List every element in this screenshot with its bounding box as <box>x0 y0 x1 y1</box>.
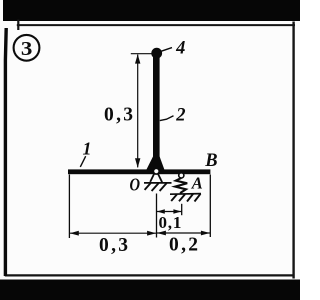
pin support hatch 3 <box>160 183 167 191</box>
svg-text:0,3: 0,3 <box>99 235 130 256</box>
vertical dim arrow up <box>135 54 140 63</box>
top scan edge band <box>3 0 300 21</box>
svg-text:O: O <box>130 175 141 195</box>
extension line below A <box>181 204 183 215</box>
leader to label 1 <box>80 156 85 167</box>
frame left line (page edge) <box>4 28 8 276</box>
pin support at O: pin circle <box>153 168 159 174</box>
dim 0,3 right arrow <box>147 231 156 236</box>
dimension 0,1 line <box>157 211 182 213</box>
frame top line <box>17 24 295 26</box>
extension line below B <box>209 175 211 238</box>
dim 0,3 left arrow <box>70 231 79 236</box>
frame top-left corner stub <box>17 20 19 31</box>
pin support hatch 1 <box>145 183 151 190</box>
svg-text:4: 4 <box>175 38 185 58</box>
figure number circle 3 <box>14 35 40 61</box>
leader to label 2 <box>160 116 174 121</box>
pin support right leg <box>158 174 162 183</box>
spring ground line <box>170 193 201 196</box>
spring support at A: hook circle <box>179 173 184 178</box>
vertical dimension 0,3: top extension line <box>131 53 154 55</box>
bottom scan edge band <box>0 280 300 300</box>
vertical dimension line <box>137 55 139 168</box>
svg-text:B: B <box>204 151 217 171</box>
frame right line <box>292 22 294 279</box>
dim 0,1 left arrow <box>157 209 165 213</box>
leader to label 4 <box>161 48 172 52</box>
spring ground hatch 3 <box>187 194 193 202</box>
pin support left leg <box>150 174 154 182</box>
extension line below O <box>156 194 158 238</box>
extension line at left end of member 1 <box>68 175 70 239</box>
gusset at base of member 2 <box>146 157 164 170</box>
svg-text:1: 1 <box>83 139 92 159</box>
spring ground hatch 4 <box>195 194 201 202</box>
member 1 (horizontal bar) <box>68 169 210 174</box>
dim 0,2 right arrow <box>201 231 210 236</box>
pin support ground line <box>144 182 172 184</box>
dim 0,2 left arrow <box>157 231 166 236</box>
dim 0,1 right arrow <box>173 209 181 213</box>
pin support hatch 2 <box>152 183 159 191</box>
svg-text:0,1: 0,1 <box>158 213 182 232</box>
frame bottom line <box>5 274 294 276</box>
dimension 0,3 bottom line <box>69 232 156 234</box>
spring ground hatch 1 <box>171 194 177 201</box>
spring zigzag <box>175 178 187 194</box>
member 2 (vertical bar) <box>153 50 160 170</box>
vertical dim arrow down <box>135 158 140 167</box>
svg-text:0,2: 0,2 <box>169 235 200 256</box>
spring ground hatch 2 <box>179 194 185 201</box>
svg-text:2: 2 <box>175 105 185 125</box>
hinge dot 4 (top of member 2) <box>151 48 162 59</box>
svg-text:3: 3 <box>21 38 33 60</box>
dimension 0,2 line <box>157 232 211 234</box>
svg-text:A: A <box>191 173 203 192</box>
svg-text:0,3: 0,3 <box>104 105 135 126</box>
